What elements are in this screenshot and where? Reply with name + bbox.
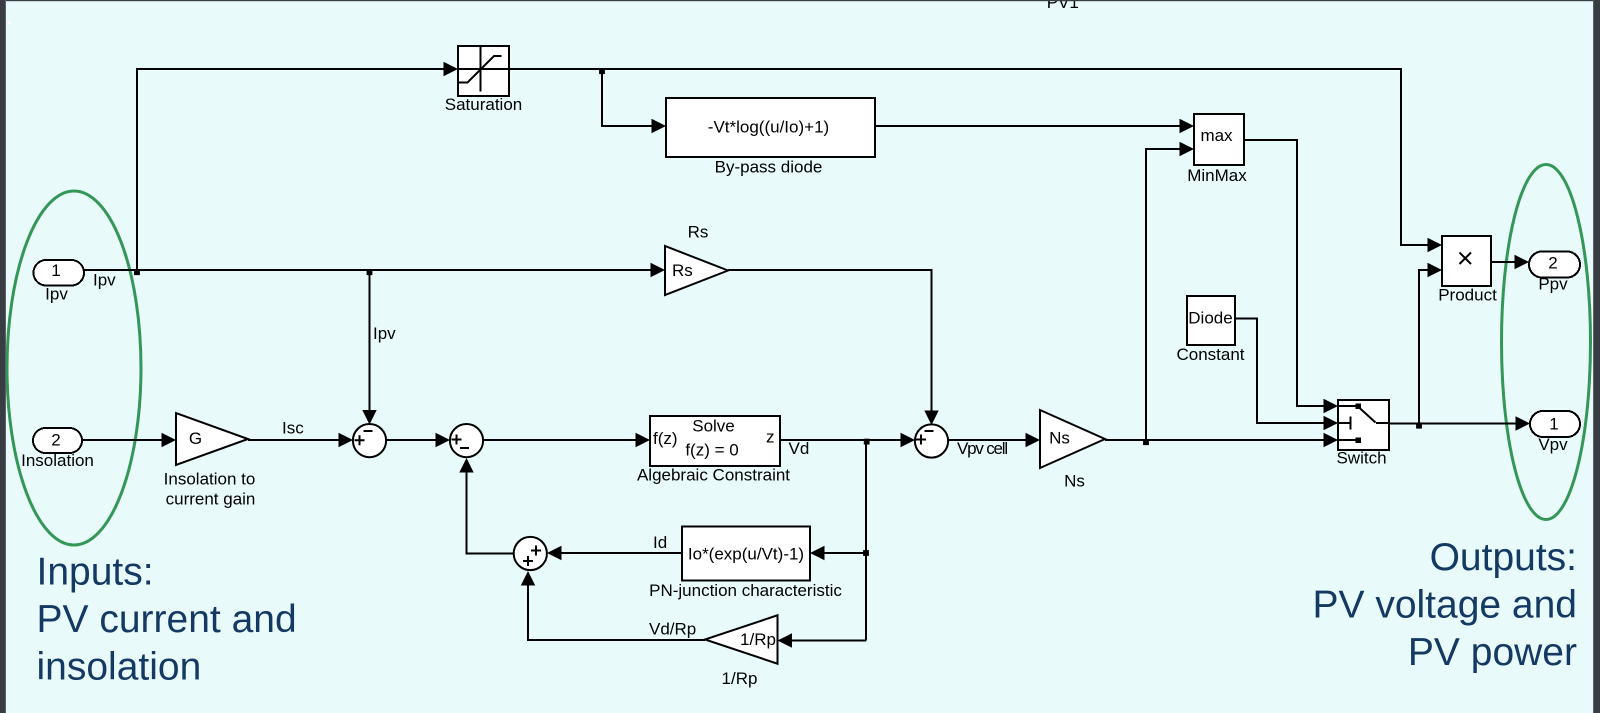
- svg-text:current gain: current gain: [166, 490, 256, 509]
- svg-text:f(z) = 0: f(z) = 0: [685, 441, 738, 460]
- svg-text:Switch: Switch: [1336, 449, 1386, 468]
- svg-text:G: G: [189, 429, 202, 448]
- svg-text:Algebraic Constraint: Algebraic Constraint: [637, 466, 790, 485]
- svg-text:2: 2: [1548, 254, 1557, 273]
- svg-text:f(z): f(z): [653, 429, 678, 448]
- svg-text:Rs: Rs: [672, 261, 693, 280]
- svg-text:MinMax: MinMax: [1187, 166, 1247, 185]
- svg-text:Ppv: Ppv: [1538, 275, 1568, 294]
- svg-text:Vd: Vd: [789, 439, 810, 458]
- svg-text:-Vt*log((u/Io)+1): -Vt*log((u/Io)+1): [708, 118, 829, 137]
- svg-text:Outputs:: Outputs:: [1430, 536, 1577, 579]
- svg-text:Insolation to: Insolation to: [164, 470, 256, 489]
- svg-text:PV current and: PV current and: [37, 598, 297, 641]
- svg-text:Isc: Isc: [282, 419, 304, 438]
- svg-text:Io*(exp(u/Vt)-1): Io*(exp(u/Vt)-1): [688, 545, 804, 564]
- svg-text:Ns: Ns: [1064, 472, 1085, 491]
- svg-text:Rs: Rs: [688, 223, 709, 242]
- svg-text:Vpv cell: Vpv cell: [957, 439, 1007, 458]
- svg-text:Id: Id: [653, 533, 667, 552]
- svg-text:z: z: [766, 428, 775, 447]
- svg-text:PV power: PV power: [1408, 631, 1577, 674]
- svg-text:PV voltage and: PV voltage and: [1312, 584, 1577, 627]
- svg-text:Ipv: Ipv: [45, 285, 68, 304]
- svg-text:Saturation: Saturation: [445, 95, 523, 114]
- svg-text:Ipv: Ipv: [373, 324, 396, 343]
- svg-text:insolation: insolation: [37, 646, 202, 689]
- svg-text:Vd/Rp: Vd/Rp: [649, 620, 696, 639]
- svg-text:By-pass diode: By-pass diode: [715, 158, 823, 177]
- svg-text:2: 2: [51, 431, 60, 450]
- svg-text:Solve: Solve: [692, 417, 735, 436]
- svg-text:Diode: Diode: [1188, 309, 1232, 328]
- svg-text:1: 1: [51, 261, 60, 280]
- svg-text:Inputs:: Inputs:: [37, 551, 154, 594]
- svg-text:Constant: Constant: [1176, 345, 1244, 364]
- svg-text:Vpv: Vpv: [1538, 435, 1568, 454]
- svg-text:Ns: Ns: [1049, 429, 1070, 448]
- svg-text:1/Rp: 1/Rp: [740, 630, 776, 649]
- svg-text:PN-junction characteristic: PN-junction characteristic: [649, 581, 842, 600]
- svg-text:1: 1: [1549, 415, 1558, 434]
- svg-text:1/Rp: 1/Rp: [722, 669, 758, 688]
- svg-text:Ipv: Ipv: [93, 271, 116, 290]
- svg-text:max: max: [1200, 126, 1233, 145]
- svg-text:Insolation: Insolation: [21, 451, 94, 470]
- svg-text:Product: Product: [1438, 286, 1497, 305]
- svg-text:PV1: PV1: [1047, 0, 1079, 12]
